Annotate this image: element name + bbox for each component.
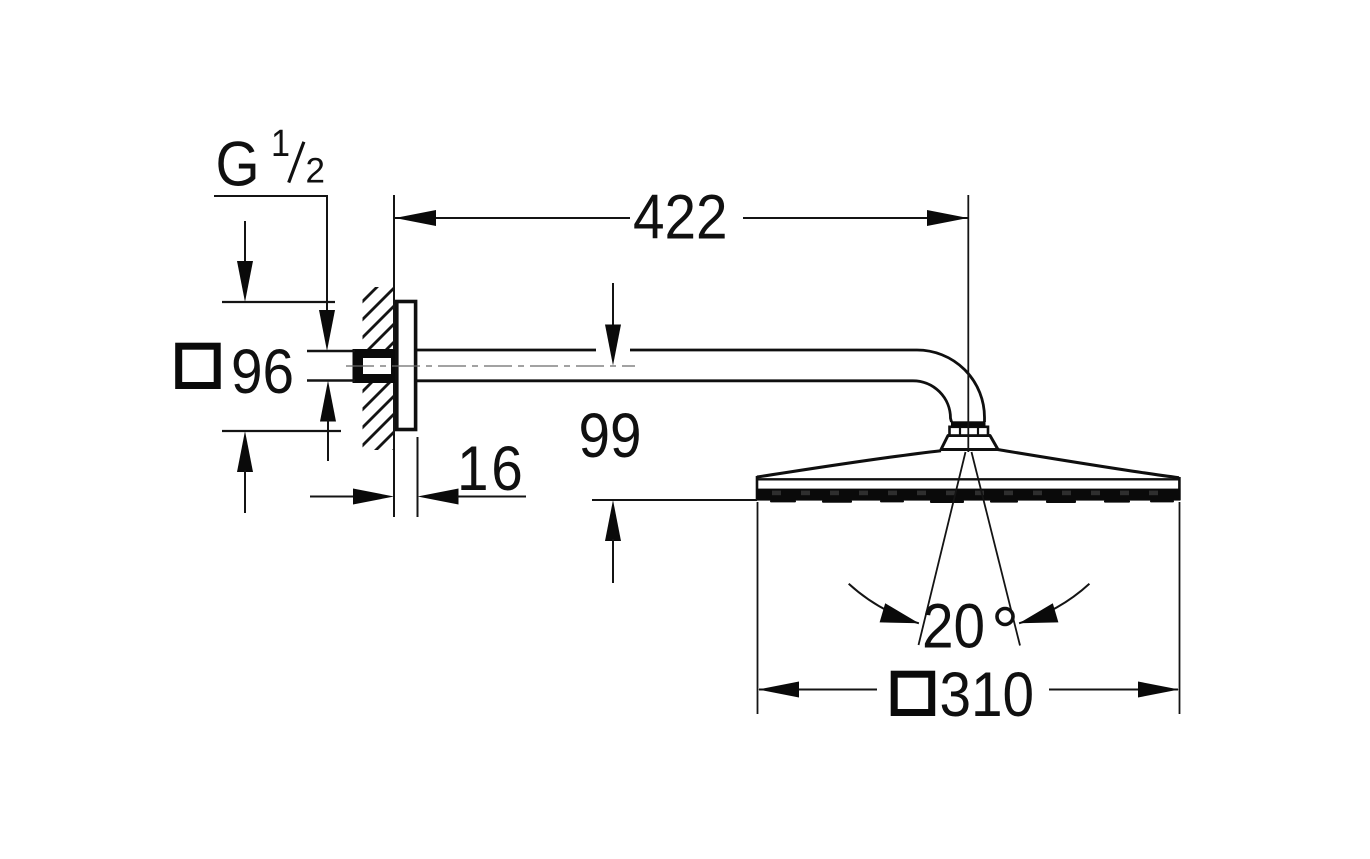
wall hatching [330, 244, 420, 550]
16 right extension line [417, 437, 419, 517]
20 degree left angle line [919, 452, 966, 645]
head rim top line [756, 478, 1180, 480]
arm centerline [346, 365, 635, 367]
99 bottom arrow [605, 500, 621, 541]
16 right arrow [418, 489, 459, 505]
422 right arrow [927, 210, 968, 226]
G1/2 leader arrow down to stub top [319, 310, 335, 351]
422 left arrow [395, 210, 436, 226]
svg-text:422: 422 [633, 182, 728, 252]
G 1/2 label [216, 122, 325, 200]
arm bend outer [917, 350, 985, 422]
96 bottom extension line [222, 430, 341, 432]
svg-text:20: 20 [922, 591, 985, 661]
svg-text:G: G [216, 129, 260, 199]
square symbol 310 [894, 674, 932, 712]
stub bottom arrow up [320, 381, 336, 422]
20 deg text [922, 591, 985, 661]
spray nozzle gaps [772, 491, 1158, 496]
thread stub G1/2 [353, 349, 396, 383]
shower head top profile right [998, 450, 1180, 478]
arm bend inner [913, 381, 952, 422]
escutcheon flange [397, 302, 416, 430]
shower head top profile left [757, 451, 941, 477]
svg-text:96: 96 [231, 336, 294, 406]
spray face lower waviness [770, 500, 1174, 503]
head left edge [756, 476, 759, 500]
96 bottom arrow [237, 431, 253, 472]
shower arm tube top edge [417, 349, 917, 352]
99 text [579, 400, 642, 470]
right arc with arrow [1019, 584, 1089, 624]
16 text [457, 433, 525, 503]
svg-text:310: 310 [940, 659, 1035, 729]
G1/2 leader line [214, 196, 327, 310]
svg-text:16: 16 [457, 433, 525, 503]
nut facet left [959, 427, 961, 436]
310 left arrow [758, 682, 799, 698]
stub reference line top [307, 350, 355, 352]
310 right arrow [1138, 682, 1179, 698]
20 degree right angle line [972, 452, 1021, 646]
310 right extension line [1179, 502, 1181, 714]
422 dimension line [395, 217, 968, 219]
spray face black band [757, 489, 1181, 501]
wall line [393, 195, 395, 517]
16 left arrow [310, 496, 356, 498]
310 dimension line [759, 689, 1178, 691]
svg-text:2: 2 [306, 152, 325, 191]
head right edge [1178, 477, 1181, 500]
422 text [633, 182, 728, 252]
nut top black band [951, 421, 986, 427]
svg-text:1: 1 [271, 122, 290, 165]
96 top extension line [222, 301, 335, 303]
shower arm tube bottom edge [417, 379, 913, 382]
connector cone [941, 436, 998, 450]
310 left extension line [757, 502, 759, 714]
nut facet right [977, 427, 979, 436]
square symbol 96 [179, 346, 218, 385]
99 bottom reference line [592, 499, 757, 501]
422 right extension line [967, 195, 969, 452]
stub reference line bottom [307, 379, 355, 381]
99 top arrow [612, 283, 614, 330]
96 text [231, 336, 294, 406]
96 top arrow [244, 221, 246, 265]
svg-text:99: 99 [579, 400, 642, 470]
left arc with arrow [849, 584, 919, 624]
310 text [940, 659, 1035, 729]
connector nut [950, 427, 989, 436]
